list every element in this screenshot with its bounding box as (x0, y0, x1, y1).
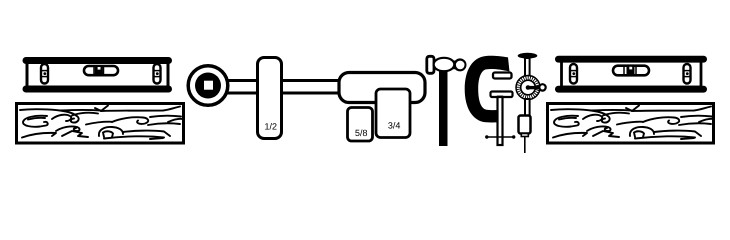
spirit level right (555, 56, 707, 93)
gauge dial wheel (516, 76, 546, 100)
wood grain plank right (548, 104, 714, 144)
hammer handle (439, 70, 448, 146)
C-clamp tommy bar (485, 135, 515, 138)
socket wrench handle bar (220, 81, 350, 94)
C-clamp frame (465, 56, 510, 123)
wrench drive head (188, 66, 228, 106)
socket 5/8 (348, 108, 373, 142)
gauge top disc (518, 53, 538, 59)
C-clamp fixed pad (493, 73, 512, 79)
gauge collet (519, 116, 531, 137)
socket 1/2 (258, 58, 282, 139)
socket 3/4 (376, 89, 410, 138)
wood grain plank left (17, 104, 184, 144)
spirit level left (23, 57, 173, 93)
ratchet body rounded rect (339, 73, 425, 103)
gauge needle (524, 137, 526, 154)
hammer head (427, 56, 465, 73)
gauge upper stem (525, 58, 530, 78)
gauge lower stem (525, 99, 530, 116)
C-clamp screw pad (491, 92, 513, 100)
C-clamp screw shaft (498, 97, 503, 145)
